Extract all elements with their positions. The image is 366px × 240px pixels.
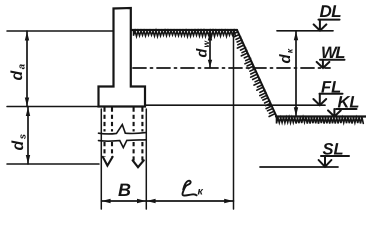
svg-text:DL: DL bbox=[320, 2, 342, 21]
svg-text:KL: KL bbox=[338, 94, 360, 112]
svg-text:WL: WL bbox=[321, 44, 345, 62]
svg-text:к: к bbox=[198, 186, 204, 198]
svg-text:B: B bbox=[118, 180, 131, 200]
svg-text:SL: SL bbox=[323, 141, 344, 159]
